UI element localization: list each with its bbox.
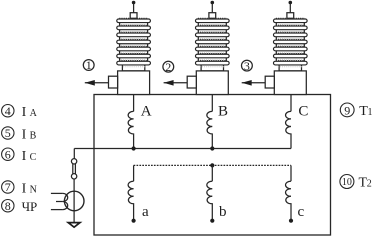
svg-text:A: A: [30, 108, 38, 119]
primary winding A: [128, 111, 133, 148]
svg-text:2: 2: [367, 179, 372, 190]
label T1: [359, 104, 372, 119]
svg-text:1: 1: [86, 58, 92, 72]
CT sensor core: [64, 191, 84, 211]
label I_B: [22, 128, 37, 143]
label I_C: [22, 149, 37, 164]
primary lead A: [133, 95, 135, 112]
svg-text:N: N: [30, 184, 37, 195]
svg-text:5: 5: [5, 126, 11, 140]
bushing phase A: [109, 1, 151, 95]
callout circle 5: [2, 126, 14, 140]
svg-text:I: I: [22, 128, 27, 143]
primary lead C: [290, 95, 292, 112]
secondary winding a: [128, 181, 133, 219]
svg-text:A: A: [141, 103, 152, 119]
secondary lead c: [290, 165, 292, 181]
callout circle 2: [163, 60, 174, 74]
terminal dot c: [289, 219, 293, 223]
secondary bus T2 (dashed): [134, 164, 291, 166]
CT lead bottom: [51, 209, 63, 211]
terminal dot a: [132, 219, 136, 223]
arrow tap 2: [164, 80, 188, 86]
svg-text:c: c: [298, 204, 305, 220]
link bar: [73, 164, 76, 174]
callout circle 3: [242, 59, 253, 73]
svg-text:6: 6: [5, 147, 11, 161]
bushing phase B: [187, 1, 229, 95]
svg-text:4: 4: [5, 104, 11, 118]
callout circle 1: [83, 58, 94, 72]
svg-text:B: B: [30, 131, 37, 142]
link circle top: [71, 159, 76, 164]
callout circle 10: [340, 175, 354, 189]
junction node B-bus: [210, 146, 214, 150]
svg-text:8: 8: [5, 199, 11, 213]
secondary lead a: [133, 165, 135, 181]
grounding conductor through CT: [73, 179, 75, 223]
svg-text:B: B: [218, 103, 228, 119]
svg-text:I: I: [22, 105, 27, 120]
svg-text:a: a: [142, 204, 149, 220]
svg-text:7: 7: [5, 180, 11, 194]
label I_N: [22, 181, 37, 196]
svg-text:9: 9: [344, 103, 350, 117]
svg-text:C: C: [30, 152, 37, 163]
svg-text:3: 3: [244, 59, 250, 73]
svg-text:ЧР: ЧР: [22, 199, 38, 214]
svg-text:I: I: [22, 149, 27, 164]
junction node b-bus: [210, 163, 214, 167]
label T2: [359, 176, 372, 191]
callout circle 8: [2, 199, 14, 213]
svg-text:I: I: [22, 181, 27, 196]
primary lead B: [211, 95, 213, 112]
svg-text:2: 2: [165, 60, 171, 74]
callout circle 7: [2, 180, 14, 194]
svg-text:C: C: [298, 103, 308, 119]
callout circle 4: [2, 104, 14, 118]
bushing phase C: [265, 1, 307, 95]
neutral wire to link: [73, 149, 75, 159]
link circle bottom: [71, 174, 76, 179]
secondary winding c: [286, 181, 291, 219]
secondary lead b: [211, 165, 213, 181]
junction node A-bus: [132, 146, 136, 150]
label I_A: [22, 105, 38, 120]
svg-text:b: b: [219, 204, 227, 220]
transformer tank T1 outline: [94, 95, 331, 236]
CT lead top: [51, 192, 63, 194]
secondary winding b: [207, 181, 212, 219]
arrow tap 3: [242, 80, 266, 86]
label ChR (partial discharge): [22, 199, 38, 214]
CT lead middle: [56, 201, 63, 203]
callout circle 6: [2, 147, 14, 161]
terminal dot b: [210, 219, 214, 223]
primary winding C: [286, 111, 291, 148]
callout circle 9: [340, 103, 354, 117]
CT secondary winding: [63, 193, 68, 209]
primary winding B: [207, 111, 212, 148]
primary neutral bus: [74, 148, 291, 150]
ground symbol: [68, 223, 80, 228]
svg-text:1: 1: [368, 107, 373, 118]
arrow tap 1: [85, 80, 109, 86]
svg-text:10: 10: [342, 177, 352, 188]
